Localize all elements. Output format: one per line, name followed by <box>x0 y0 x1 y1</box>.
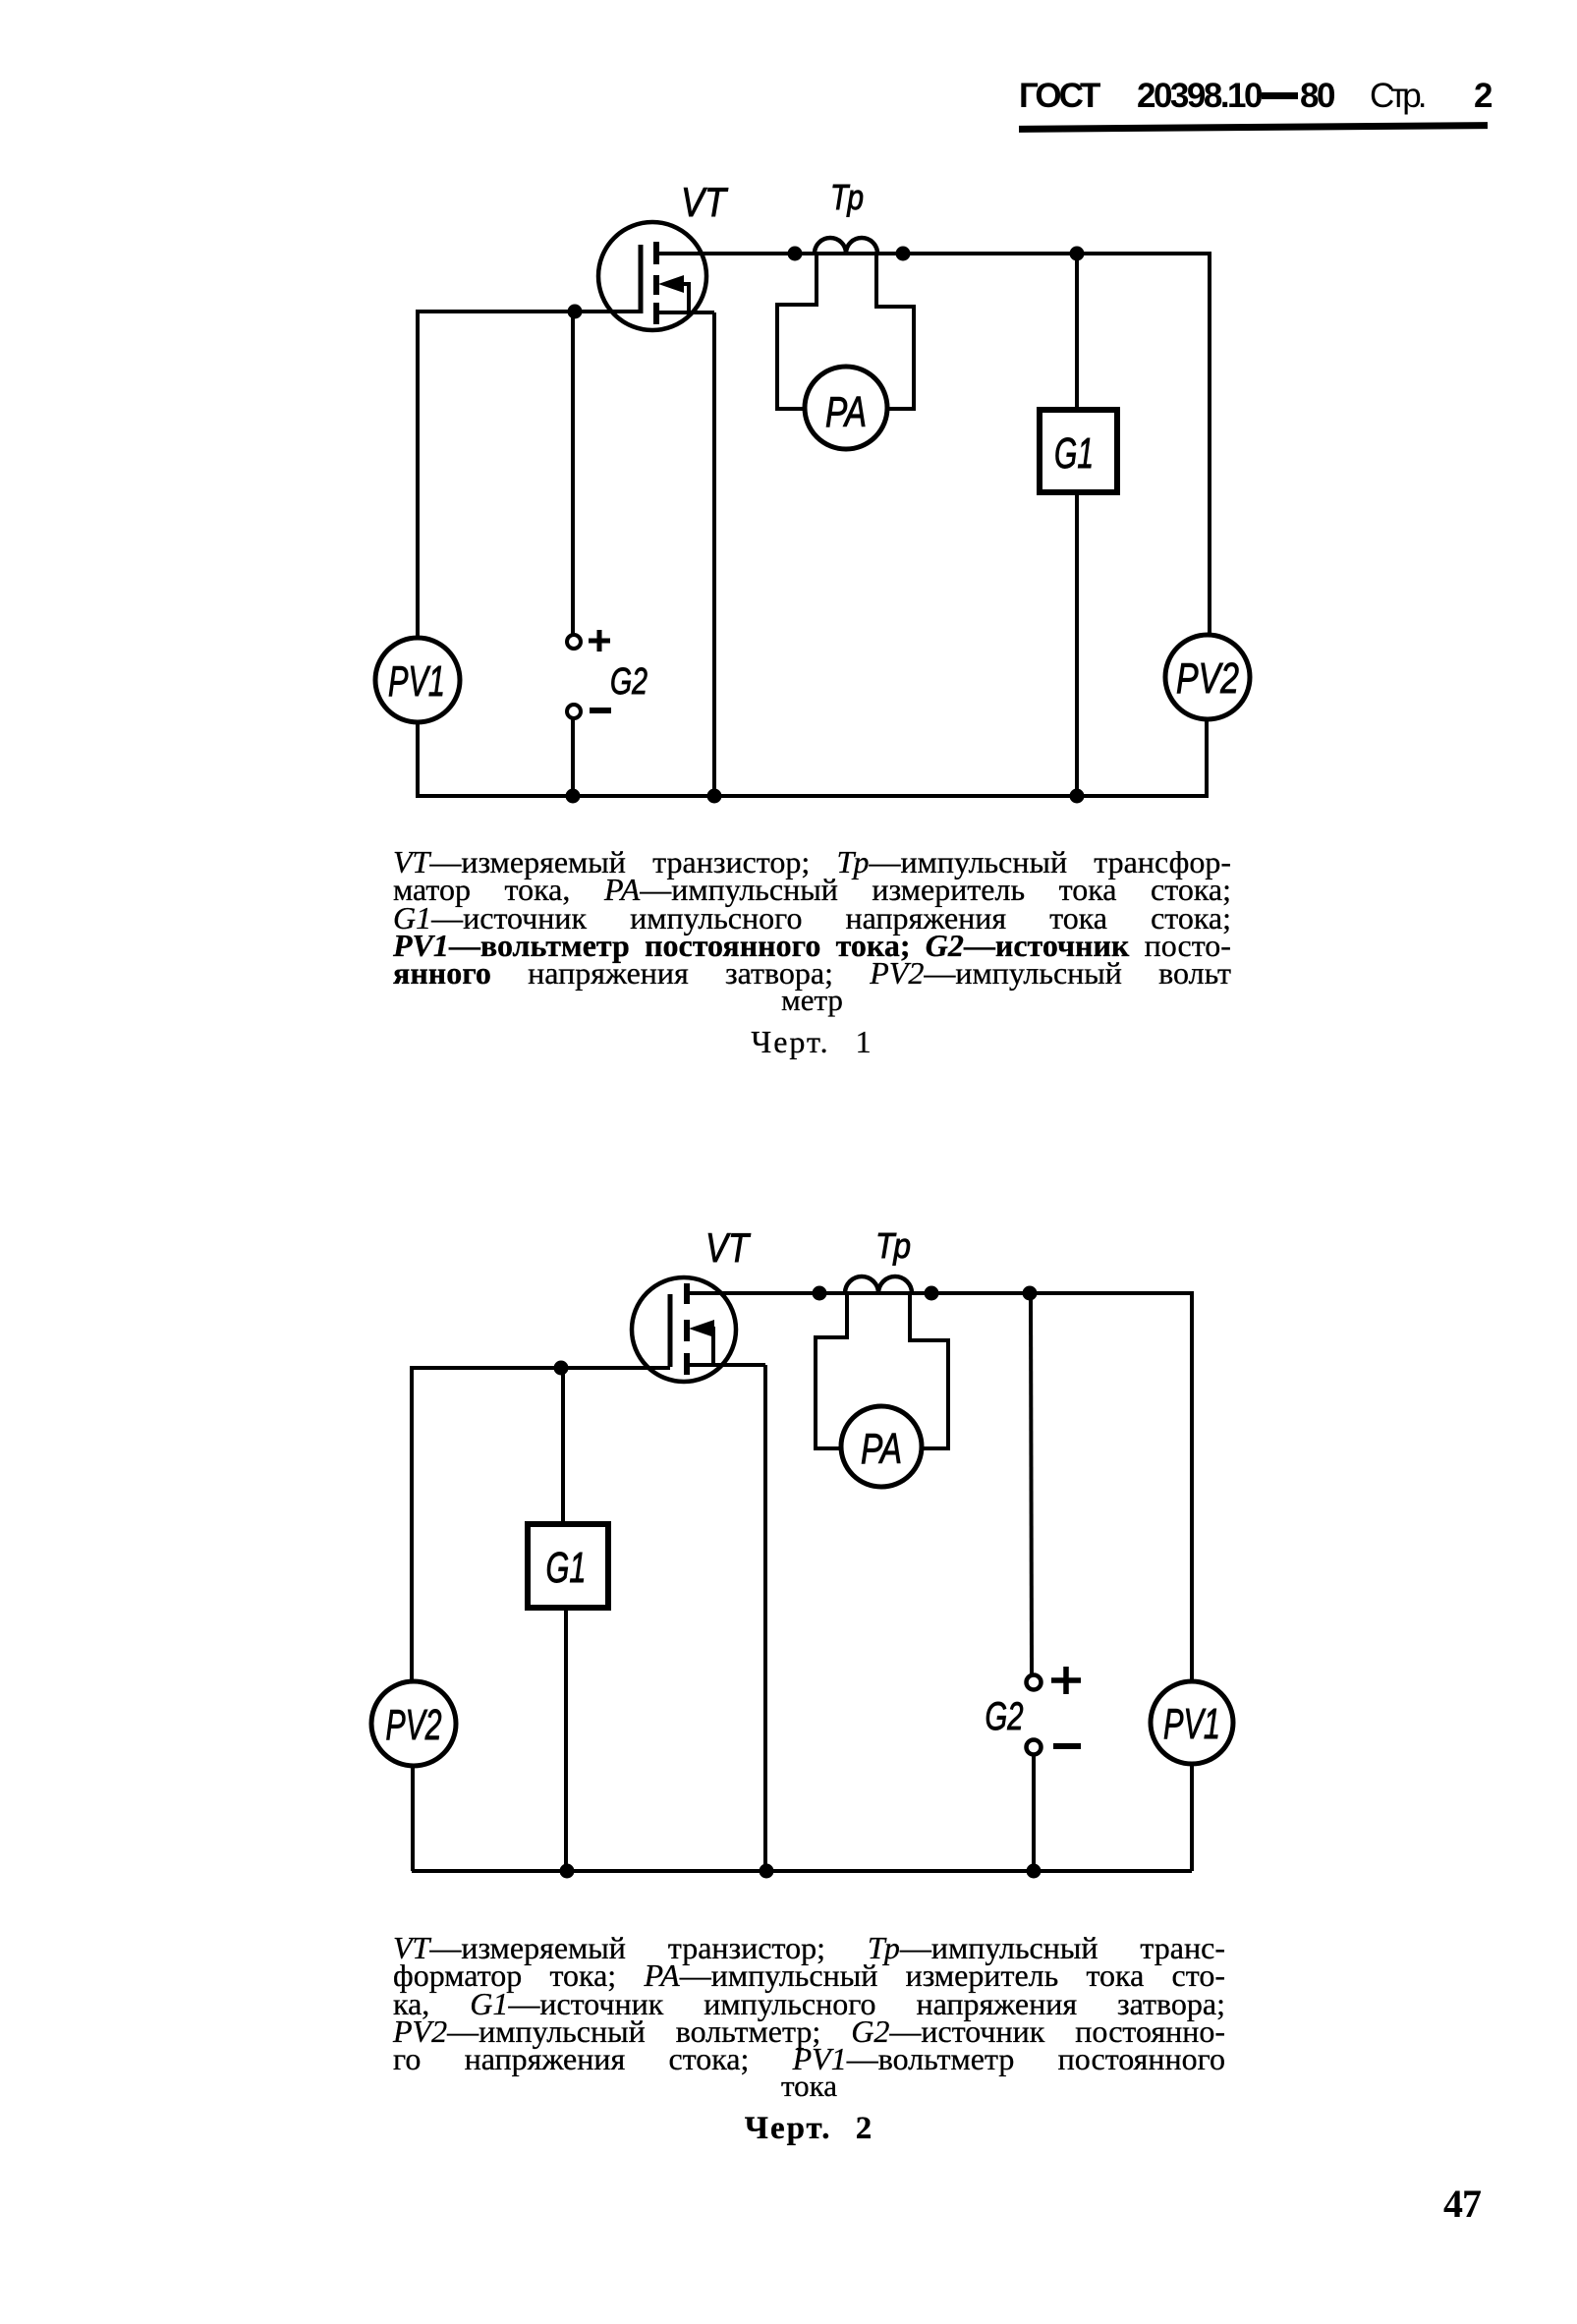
header underline <box>1019 122 1488 133</box>
wire: left edge upper segment (fig.1) <box>416 310 420 639</box>
wire: right edge upper segment (fig.1) <box>1208 252 1211 635</box>
wire: gate lead / left horizontal (fig.2) <box>410 1366 670 1370</box>
wire: transformer secondary loop to PA (fig.1) <box>777 255 914 409</box>
wire: left edge lower segment (fig.2) <box>411 1765 415 1871</box>
wire: G1 branch lower segment (fig.2) <box>564 1608 568 1871</box>
label G1 (fig.2) <box>546 1544 587 1592</box>
svg-text:VT: VT <box>705 1224 752 1271</box>
svg-text:G2: G2 <box>986 1695 1024 1738</box>
wire: right edge upper segment (fig.2) <box>1190 1291 1194 1681</box>
label Тр (fig.1) <box>830 177 864 217</box>
wire: transformer secondary loop to PA (fig.2) <box>816 1295 948 1448</box>
wire: G1 branch upper segment (fig.1) <box>1075 254 1079 410</box>
wire: G1 branch lower segment (fig.1) <box>1075 492 1079 796</box>
label G2 (fig.2) <box>986 1695 1024 1738</box>
svg-text:PV1: PV1 <box>388 657 445 706</box>
node: junction dot bottom G2 branch (fig.2) <box>1027 1864 1042 1879</box>
label G1 (fig.1) <box>1054 429 1094 478</box>
ammeter PA (fig.2) <box>841 1406 922 1487</box>
node: junction dot bottom G1 branch (fig.1) <box>1070 789 1085 804</box>
svg-text:G1: G1 <box>1054 429 1094 478</box>
node: junction dot bottom G1 branch (fig.2) <box>560 1864 575 1879</box>
transistor VT (fig.2) channel segments <box>684 1283 690 1375</box>
transistor VT (fig.1) substrate arrow <box>658 275 689 311</box>
figure 1 title <box>393 1028 1231 1055</box>
transistor VT (fig.1) gate electrode <box>639 245 644 313</box>
node: junction dot left of transformer (fig.2) <box>813 1286 827 1301</box>
node: junction dot bottom source branch (fig.1) <box>707 789 722 804</box>
page number 47 <box>1443 2181 1481 2227</box>
wire: drain of VT to right edge (fig.1) <box>656 252 1210 255</box>
svg-text:G2: G2 <box>610 661 648 703</box>
transistor VT (fig.2) substrate arrow <box>689 1320 714 1363</box>
wire: bottom rail (fig.1) <box>416 794 1209 798</box>
wire: right edge lower segment (fig.1) <box>1205 719 1209 796</box>
voltmeter PV1 (fig.2) <box>1151 1681 1233 1764</box>
node: junction dot bottom G2 (fig.1) <box>566 789 581 804</box>
label PV1 (fig.1) <box>388 657 445 706</box>
wire: G2 branch upper segment (fig.1) <box>571 312 575 634</box>
transformer Tp primary winding (fig.2) <box>845 1276 912 1293</box>
label VT (fig.2) <box>705 1224 752 1271</box>
voltmeter PV1 (fig.1) <box>375 638 460 722</box>
source G2 positive terminal (fig.1) <box>567 635 581 649</box>
source G2 negative terminal (fig.1) <box>567 705 581 718</box>
node: junction dot at top of G1 branch (fig.1) <box>1070 247 1085 261</box>
voltmeter PV2 (fig.1) <box>1165 635 1250 719</box>
label VT (fig.1) <box>681 179 729 225</box>
node: junction dot left of transformer (fig.1) <box>788 247 803 261</box>
label PV1 (fig.2) <box>1163 1700 1220 1748</box>
svg-text:G1: G1 <box>546 1544 587 1592</box>
wire: gate lead / left horizontal (fig.1) <box>416 310 641 313</box>
ammeter PA (fig.1) <box>805 367 887 449</box>
svg-text:VT: VT <box>681 179 729 225</box>
svg-text:Тр: Тр <box>875 1225 911 1266</box>
node: junction dot gate wire / G1 branch (fig.2) <box>554 1361 569 1376</box>
svg-text:PV1: PV1 <box>1163 1700 1220 1748</box>
label РА (fig.1) <box>825 388 867 436</box>
label Тр (fig.2) <box>875 1225 911 1266</box>
node: junction dot bottom source branch (fig.2) <box>760 1864 774 1879</box>
voltmeter PV2 (fig.2) <box>371 1681 456 1766</box>
wire: bottom rail (fig.2) <box>412 1869 1192 1873</box>
wire: left edge lower segment (fig.1) <box>416 722 420 796</box>
wire: source branch of VT down (fig.2) <box>763 1365 767 1871</box>
wire: G2 branch upper segment (fig.2) <box>1031 1293 1032 1674</box>
wire: G2 branch lower segment (fig.2) <box>1032 1754 1036 1871</box>
svg-text:PV2: PV2 <box>386 1701 442 1749</box>
header: ГОСТ 20398.10—80 Стр. 2 <box>1019 77 1098 116</box>
source G2 positive terminal (fig.2) <box>1027 1675 1042 1690</box>
source G1 box (fig.2) <box>528 1524 608 1608</box>
wire: G1 branch upper segment (fig.2) <box>561 1368 565 1524</box>
wire: source lead of VT (fig.2) <box>687 1363 765 1367</box>
wire: G2 branch lower segment (fig.1) <box>571 717 575 796</box>
transformer Tp primary winding (fig.1) <box>815 238 877 254</box>
transistor VT (fig.2) envelope circle <box>632 1277 736 1382</box>
caption of figure 2 <box>393 1934 1225 1961</box>
source G2 negative terminal (fig.2) <box>1027 1740 1042 1755</box>
svg-text:РА: РА <box>825 388 867 436</box>
label PV2 (fig.1) <box>1176 654 1239 703</box>
svg-text:PV2: PV2 <box>1176 654 1239 703</box>
node: junction dot right of transformer (fig.1) <box>896 247 911 261</box>
source G1 box (fig.1) <box>1040 410 1117 492</box>
caption of figure 1 <box>393 848 1231 876</box>
node: junction dot gate wire / G2 branch (fig.1) <box>568 305 583 319</box>
figure 2 title <box>393 2115 1225 2142</box>
wire: drain of VT to right edge (fig.2) <box>687 1291 1192 1295</box>
wire: source branch of VT down (fig.1) <box>712 312 716 796</box>
label PV2 (fig.2) <box>386 1701 442 1749</box>
transistor VT (fig.2) gate electrode <box>668 1294 673 1367</box>
transistor VT (fig.1) channel segments <box>653 242 659 324</box>
node: junction dot top of G2 branch (fig.2) <box>1023 1286 1038 1301</box>
svg-text:РА: РА <box>861 1425 902 1473</box>
wire: left edge upper segment (fig.2) <box>410 1366 414 1682</box>
node: junction dot right of transformer (fig.2) <box>925 1286 939 1301</box>
polarity plus sign of G2 (fig.2) <box>1051 1667 1081 1694</box>
label G2 (fig.1) <box>610 661 648 703</box>
svg-text:Тр: Тр <box>830 177 864 217</box>
transistor VT (fig.1) envelope circle <box>598 222 706 330</box>
polarity minus sign of G2 (fig.1) <box>590 708 611 713</box>
label РА (fig.2) <box>861 1425 902 1473</box>
wire: right edge lower segment (fig.2) <box>1190 1764 1194 1871</box>
wire: source lead of VT (fig.1) <box>656 311 714 314</box>
polarity minus sign of G2 (fig.2) <box>1053 1743 1081 1749</box>
polarity plus sign of G2 (fig.1) <box>589 630 610 652</box>
